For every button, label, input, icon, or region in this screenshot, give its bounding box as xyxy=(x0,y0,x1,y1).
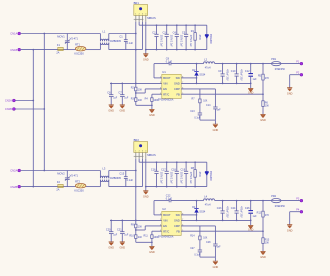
capacitor C15 (X-cap) xyxy=(125,171,127,177)
inductor L4 (output) xyxy=(197,200,204,202)
svg-text:C19: C19 xyxy=(181,168,186,171)
resistor R10 (EN divider bottom) xyxy=(135,228,137,235)
svg-text:VS-471: VS-471 xyxy=(70,175,79,178)
TVS diode D1 xyxy=(205,33,209,35)
wire EN divider to ground stem xyxy=(136,104,152,106)
ground comp network xyxy=(214,120,216,124)
wire bridge pin3 to AC neutral xyxy=(141,22,143,50)
svg-text:RXEF050: RXEF050 xyxy=(275,69,286,71)
svg-text:250V/3.3uF: 250V/3.3uF xyxy=(170,35,172,47)
svg-text:470K: 470K xyxy=(198,172,200,178)
wire VIN rail xyxy=(110,219,162,221)
svg-text:C12: C12 xyxy=(245,70,250,73)
capacitor C10 (output filter) xyxy=(236,64,238,74)
svg-text:PR1: PR1 xyxy=(271,58,276,61)
thermistor RT1 xyxy=(75,46,86,51)
svg-text:C28: C28 xyxy=(206,241,211,244)
svg-text:GND: GND xyxy=(260,119,266,122)
diode D2 (freewheel) xyxy=(194,70,198,72)
svg-text:VS-471: VS-471 xyxy=(70,38,79,41)
resistor R6 (FB divider bottom) xyxy=(262,94,264,101)
svg-text:10K: 10K xyxy=(265,106,270,108)
svg-text:GND: GND xyxy=(149,251,155,254)
resistor R11 (timing) xyxy=(152,230,162,232)
bridge rectifier BR1 xyxy=(134,1,140,5)
resistor R1 (bleeder) xyxy=(194,25,196,32)
svg-text:GND: GND xyxy=(213,129,219,132)
svg-text:275V/0.1uF: 275V/0.1uF xyxy=(189,35,191,47)
svg-text:GND: GND xyxy=(287,92,293,95)
inductor L2 (output) xyxy=(197,63,204,65)
svg-text:250V/3.3uF: 250V/3.3uF xyxy=(159,172,161,184)
svg-text:GND: GND xyxy=(287,229,293,232)
capacitor C22 (bootstrap) xyxy=(168,199,170,202)
capacitor C14 (comp hf) xyxy=(214,89,216,107)
wire comp network bottom xyxy=(200,119,216,121)
capacitor C16 (bus filter) xyxy=(156,162,158,171)
svg-text:470uF 25V: 470uF 25V xyxy=(240,69,242,81)
wire power ground row xyxy=(181,82,251,84)
svg-text:C21: C21 xyxy=(117,229,122,232)
wire DC bus right closure xyxy=(206,25,208,49)
port P4 (GND output) xyxy=(300,210,303,213)
wire AC line (top) xyxy=(21,170,101,172)
svg-text:CMB0605: CMB0605 xyxy=(110,40,122,43)
svg-text:C18: C18 xyxy=(171,168,176,171)
TVS diode D3 xyxy=(205,170,209,172)
svg-text:P6KE400: P6KE400 xyxy=(209,171,211,181)
svg-text:1uF: 1uF xyxy=(113,98,118,100)
capacitor C13 (comp) xyxy=(199,103,201,113)
port CN1B (AC neutral input) xyxy=(18,48,21,51)
svg-text:24K: 24K xyxy=(138,100,143,102)
svg-text:C10: C10 xyxy=(231,70,236,73)
svg-text:GND: GND xyxy=(213,266,219,269)
resistor R8 (bleeder) xyxy=(194,162,196,169)
port P2 (GND output) xyxy=(300,73,303,76)
op-amp U converter IC U1 xyxy=(162,70,166,74)
wire EN pin xyxy=(145,88,162,90)
ground FB divider xyxy=(260,250,265,252)
svg-text:R14: R14 xyxy=(190,234,195,237)
resistor R3 (EN divider bottom) xyxy=(135,91,137,98)
resistor R9 (EN divider top) xyxy=(135,224,137,228)
wire second line port xyxy=(16,100,34,102)
wire bridge pin3 to AC neutral xyxy=(141,159,143,187)
ground output port xyxy=(287,224,292,226)
svg-text:470K: 470K xyxy=(198,35,200,41)
wire BOOT pin xyxy=(154,77,162,79)
op-amp U converter IC U2 xyxy=(162,207,166,211)
svg-text:C16: C16 xyxy=(151,168,156,171)
wire second neutral port xyxy=(16,108,45,110)
svg-text:GND: GND xyxy=(260,256,266,259)
svg-text:0.1uF: 0.1uF xyxy=(127,42,134,45)
svg-text:0.1uF: 0.1uF xyxy=(166,61,173,64)
wire bridge pin4 to DC- rail xyxy=(145,159,147,187)
wire output ground port xyxy=(290,74,300,76)
fuse F2 xyxy=(58,184,63,187)
svg-text:0.1uF: 0.1uF xyxy=(127,179,134,182)
diode D4 (freewheel) xyxy=(194,207,198,209)
svg-text:C27: C27 xyxy=(190,247,195,250)
svg-text:250V/3.3uF: 250V/3.3uF xyxy=(170,172,172,184)
svg-text:GND: GND xyxy=(143,58,149,61)
capacitor C6 (VIN bypass) xyxy=(110,83,112,94)
svg-text:R11: R11 xyxy=(143,235,148,238)
svg-text:1uF: 1uF xyxy=(113,235,118,237)
thermistor RT2 xyxy=(75,183,86,188)
wire bridge pin2 to DC+ rail xyxy=(138,159,140,162)
ground FB divider xyxy=(260,113,265,115)
capacitor C24 (output filter) xyxy=(236,201,238,211)
ground output port xyxy=(287,87,292,89)
ground bridge negative xyxy=(145,50,147,54)
wire BOOT pin xyxy=(154,214,162,216)
wire PH pin to switch node xyxy=(181,77,196,79)
port CN2B (AC neutral input) xyxy=(18,185,21,188)
bridge rectifier BR2 xyxy=(134,138,140,142)
wire Vout rail xyxy=(215,200,272,202)
ground VIN bypass 2 xyxy=(120,241,125,243)
fuse F1 xyxy=(58,47,63,50)
inductor L3 (common-mode choke) xyxy=(99,171,101,179)
capacitor C4 (bus filter) xyxy=(176,25,178,34)
ground VIN bypass 2 xyxy=(120,104,125,106)
resistor R14 (comp) xyxy=(199,226,201,236)
varistor MOV2 xyxy=(66,171,68,178)
svg-text:PR2: PR2 xyxy=(271,195,276,198)
port CN2A (second AC line input) xyxy=(13,99,16,102)
svg-text:250V/3.3uF: 250V/3.3uF xyxy=(180,172,182,184)
svg-text:C22: C22 xyxy=(166,195,171,198)
svg-text:GND: GND xyxy=(108,110,114,113)
capacitor C20 (VIN bypass) xyxy=(110,220,112,231)
wire power ground row xyxy=(181,219,251,221)
fuse PR2 (PTC resettable) xyxy=(271,195,276,198)
resistor R5 (FB divider top) xyxy=(262,64,264,75)
wire feeder line vertical xyxy=(43,34,45,171)
svg-text:10K: 10K xyxy=(138,226,143,228)
svg-text:250V/3.3uF: 250V/3.3uF xyxy=(159,35,161,47)
svg-text:GND: GND xyxy=(120,110,126,113)
ground VIN bypass 1 xyxy=(109,241,114,243)
svg-text:250V/3.3uF: 250V/3.3uF xyxy=(180,35,182,47)
svg-text:R10: R10 xyxy=(129,235,134,238)
svg-text:0.1uF: 0.1uF xyxy=(166,198,173,201)
svg-text:2A: 2A xyxy=(56,189,59,192)
svg-text:C17: C17 xyxy=(161,168,166,171)
svg-text:C13: C13 xyxy=(190,110,195,113)
svg-text:R13: R13 xyxy=(265,238,270,241)
svg-text:SS34: SS34 xyxy=(199,73,206,76)
svg-text:SS34: SS34 xyxy=(199,210,206,213)
svg-text:2A: 2A xyxy=(56,52,59,55)
inductor L1 (common-mode choke) xyxy=(99,34,101,42)
svg-text:10K: 10K xyxy=(203,101,208,103)
capacitor C8 (bootstrap) xyxy=(168,62,170,65)
ground EN/RT network xyxy=(149,108,154,110)
svg-text:1nF: 1nF xyxy=(217,246,222,248)
port P3 (V+ output) xyxy=(300,199,303,202)
svg-text:GND: GND xyxy=(149,114,155,117)
capacitor C26 (output ceramic) xyxy=(250,201,252,211)
svg-text:47uH: 47uH xyxy=(205,204,211,207)
svg-text:1uF: 1uF xyxy=(124,98,129,100)
capacitor C23 (output filter) xyxy=(222,201,224,211)
svg-text:1uF: 1uF xyxy=(124,235,129,237)
capacitor C17 (bus filter) xyxy=(166,162,168,171)
wire PH pin to switch node xyxy=(181,214,196,216)
ground EN/RT network xyxy=(149,245,154,247)
wire FB pin xyxy=(181,93,263,95)
port CN2A (AC line input) xyxy=(18,169,21,172)
capacitor C2 (bus filter) xyxy=(156,25,158,34)
svg-text:C14: C14 xyxy=(206,104,211,107)
svg-text:1nF: 1nF xyxy=(217,109,222,111)
resistor R13 (FB divider bottom) xyxy=(262,231,264,238)
wire EN divider to ground stem xyxy=(136,241,152,243)
ground output caps xyxy=(250,83,252,88)
port CN1A (AC line input) xyxy=(18,32,21,35)
capacitor C18 (bus filter) xyxy=(176,162,178,171)
capacitor C5 (bus filter) xyxy=(185,25,187,34)
capacitor C9 (output filter) xyxy=(222,64,224,74)
capacitor C1 (X-cap) xyxy=(125,34,127,40)
svg-text:0.1uF: 0.1uF xyxy=(194,117,200,119)
resistor R7 (comp) xyxy=(199,89,201,99)
svg-text:U1: U1 xyxy=(162,70,166,74)
svg-text:GND: GND xyxy=(143,195,149,198)
wire Vout rail xyxy=(215,63,272,65)
wire feeder neutral vertical xyxy=(32,50,34,187)
ground bridge negative xyxy=(145,187,147,191)
capacitor C3 (bus filter) xyxy=(166,25,168,34)
svg-text:GND: GND xyxy=(108,247,114,250)
wire VIN rail xyxy=(110,82,162,84)
capacitor C21 (VIN bypass) xyxy=(121,220,123,231)
capacitor C19 (bus filter) xyxy=(185,162,187,171)
svg-text:1uF: 1uF xyxy=(253,78,258,81)
svg-text:27K: 27K xyxy=(265,215,270,217)
svg-text:GND: GND xyxy=(120,247,126,250)
wire AC neutral (bottom) xyxy=(21,186,58,188)
ground output caps xyxy=(250,220,252,225)
resistor R4 (timing) xyxy=(152,93,162,95)
wire AC neutral (bottom) xyxy=(21,49,58,51)
svg-text:RXEF050: RXEF050 xyxy=(275,206,286,208)
wire COMP pin xyxy=(181,88,215,90)
svg-text:CMB0605: CMB0605 xyxy=(110,177,122,180)
svg-text:10K: 10K xyxy=(203,238,208,240)
wire DC bus right closure xyxy=(206,162,208,186)
svg-text:R12: R12 xyxy=(257,212,262,215)
svg-text:470uF 25V: 470uF 25V xyxy=(226,206,228,218)
capacitor C28 (comp hf) xyxy=(214,226,216,244)
fuse PR1 (PTC resettable) xyxy=(271,58,276,61)
svg-text:KSC350: KSC350 xyxy=(74,190,84,193)
resistor R12 (FB divider top) xyxy=(262,201,264,212)
wire bridge pin1 to AC line / DC feed xyxy=(135,22,137,87)
port P1 (V+ output) xyxy=(300,62,303,65)
wire EN pin xyxy=(145,225,162,227)
svg-text:24K: 24K xyxy=(138,237,143,239)
resistor R2 (EN divider top) xyxy=(135,87,137,91)
svg-text:P6KE400: P6KE400 xyxy=(209,34,211,44)
wire output ground port xyxy=(290,211,300,213)
ground VIN bypass 1 xyxy=(109,104,114,106)
capacitor C7 (VIN bypass) xyxy=(121,83,123,94)
svg-text:0.1uF: 0.1uF xyxy=(194,254,200,256)
svg-text:47uH: 47uH xyxy=(205,67,211,70)
svg-text:KSC350: KSC350 xyxy=(74,53,84,56)
svg-text:1uF: 1uF xyxy=(253,215,258,218)
capacitor C27 (comp) xyxy=(199,240,201,250)
svg-text:C26: C26 xyxy=(245,207,250,210)
wire FB pin xyxy=(181,230,263,232)
svg-text:27K: 27K xyxy=(265,78,270,80)
svg-text:10K: 10K xyxy=(138,89,143,91)
port CN2B (second AC neutral input) xyxy=(13,108,16,111)
varistor MOV1 xyxy=(66,34,68,41)
svg-text:C23: C23 xyxy=(217,207,222,210)
wire AC line (top) xyxy=(21,33,101,35)
svg-text:470uF 25V: 470uF 25V xyxy=(240,206,242,218)
wire bridge pin1 to AC line / DC feed xyxy=(135,159,137,224)
svg-text:U2: U2 xyxy=(162,207,166,211)
svg-text:C20: C20 xyxy=(106,229,111,232)
svg-text:470uF 25V: 470uF 25V xyxy=(226,69,228,81)
wire bridge pin2 to DC+ rail xyxy=(138,22,140,25)
wire comp network bottom xyxy=(200,256,216,258)
svg-text:10K: 10K xyxy=(265,243,270,245)
svg-text:C24: C24 xyxy=(231,207,236,210)
capacitor C12 (output ceramic) xyxy=(250,64,252,74)
wire bridge pin4 to DC- rail xyxy=(145,22,147,50)
wire COMP pin xyxy=(181,225,215,227)
svg-text:275V/0.1uF: 275V/0.1uF xyxy=(189,172,191,184)
ground comp network xyxy=(214,257,216,261)
